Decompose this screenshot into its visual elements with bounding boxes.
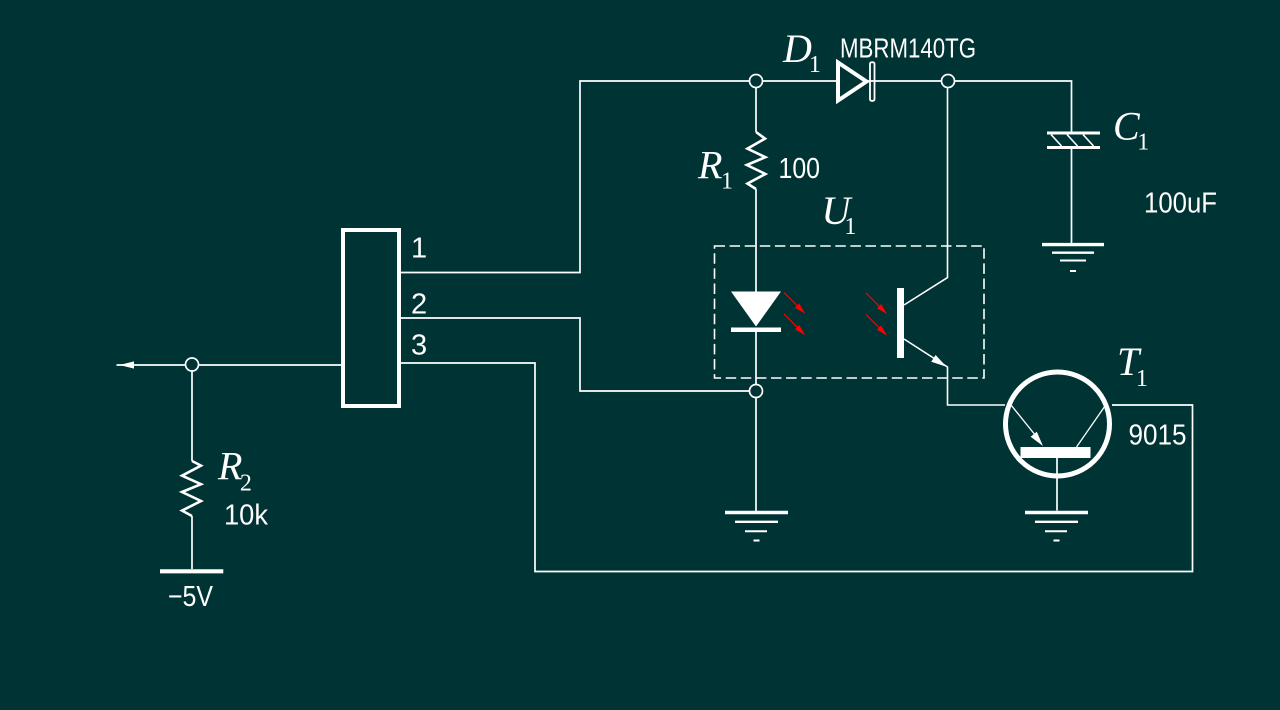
red light arrow 2 [784, 314, 805, 335]
transistor T1 base bar [1021, 447, 1091, 458]
opto LED cathode bar [731, 328, 781, 333]
node C (cathode junction) [942, 75, 955, 88]
node D (LED cathode junction) [750, 385, 763, 398]
wire capacitor to ground [1071, 148, 1073, 243]
svg-text:3: 3 [411, 330, 427, 362]
capacitor C1 top plate [1047, 132, 1100, 135]
wire pin1 to top rail [401, 81, 756, 273]
wire R2 branch vertical [191, 371, 193, 569]
node A (left net junction) [186, 358, 199, 371]
opto phototransistor bar [897, 288, 904, 358]
svg-text:−5V: −5V [168, 581, 214, 613]
ground LED [725, 513, 788, 541]
transistor T1 base lead to ground [1056, 458, 1058, 511]
arrow head left net [120, 361, 135, 368]
diode D1 cathode bar [870, 62, 875, 101]
capacitor C1 bottom plate [1047, 146, 1100, 149]
capacitor C1 hatch [1051, 135, 1094, 147]
opto LED triangle [731, 292, 781, 327]
svg-text:MBRM140TG: MBRM140TG [840, 33, 976, 64]
wire left net with arrow to connector [117, 364, 342, 366]
wire opto emitter to transistor base [904, 339, 1005, 405]
ground capacitor [1042, 245, 1104, 271]
svg-text:2: 2 [411, 289, 427, 321]
svg-text:10k: 10k [224, 500, 268, 532]
svg-text:1: 1 [411, 233, 427, 265]
optocoupler U1 dashed box [715, 246, 985, 378]
red light arrow 3 [866, 293, 887, 314]
svg-text:100uF: 100uF [1144, 188, 1217, 220]
resistor R2 zigzag [182, 461, 201, 516]
transistor T1 emitter diagonal [1011, 405, 1038, 439]
wire pin3 bottom rail to transistor collector [401, 363, 1193, 572]
wire pin2 to LED cathode node [401, 318, 749, 391]
red light arrow 4 [866, 315, 887, 336]
wire LED cathode to ground [755, 331, 757, 511]
transistor T1 circle [1006, 372, 1110, 476]
ground transistor [1025, 513, 1088, 541]
svg-text:9015: 9015 [1129, 420, 1187, 452]
red light arrow 1 [784, 293, 805, 314]
wire top rail node B to capacitor corner [756, 81, 1072, 133]
arrow head opto emitter [931, 355, 946, 367]
transistor T1 emitter arrow head [1031, 432, 1043, 446]
wire opto collector to node C [904, 81, 948, 305]
power bar -5V [160, 569, 223, 573]
diode D1 triangle [838, 63, 867, 101]
transistor T1 collector diagonal [1077, 406, 1106, 447]
svg-text:100: 100 [779, 153, 821, 185]
resistor R1 zigzag [747, 132, 766, 189]
wire R1 branch vertical [755, 81, 757, 293]
connector J1 [343, 230, 399, 406]
node B (anode junction) [750, 75, 763, 88]
